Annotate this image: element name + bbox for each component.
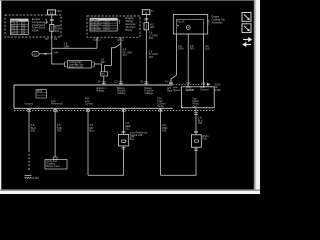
svg-text:Rqst: Rqst: [167, 89, 172, 92]
svg-text:Cooling: Cooling: [186, 88, 195, 91]
wire: BCM pin drop to H1: [96, 37, 98, 48]
pressure switch box 1: [119, 135, 129, 146]
svg-text:Relay: Relay: [158, 105, 165, 108]
wire: L1 down through fuse: [51, 15, 53, 49]
connector tick pair under L2: [144, 19, 148, 20]
svg-text:Control: Control: [85, 102, 94, 105]
svg-text:Voltage: Voltage: [145, 92, 154, 95]
svg-text:X50A: X50A: [56, 10, 62, 13]
svg-text:15 A: 15 A: [105, 28, 110, 31]
drop wire x29 from box D: [27, 108, 36, 171]
svg-text:G305: G305: [215, 89, 222, 92]
wire label on vertical drop: [54, 52, 59, 55]
svg-text:Fan Hi: Fan Hi: [177, 20, 185, 23]
svg-text:Voltage: Voltage: [117, 92, 126, 95]
ground G103: [25, 175, 32, 178]
svg-text:10A: 10A: [150, 26, 155, 29]
mid text block (low reference): [130, 130, 148, 137]
svg-text:Before Conn: Before Conn: [46, 165, 60, 168]
page margin: top hairline: [0, 0, 260, 2]
svg-text:459: 459: [149, 37, 154, 40]
fuse F1 label: [55, 25, 61, 33]
svg-text:473: 473: [123, 54, 128, 57]
junction at dashed line x88: [86, 109, 90, 111]
connector tick above bus x171: [169, 82, 173, 83]
svg-text:Ground: Ground: [25, 102, 34, 105]
svg-text:Reference: Reference: [51, 102, 63, 105]
svg-text:640: 640: [54, 52, 59, 55]
svg-text:30A: 30A: [55, 30, 60, 33]
svg-text:Speed: Speed: [173, 89, 181, 92]
svg-text:BLK: BLK: [205, 48, 210, 51]
motor symbol in box C: [186, 26, 190, 30]
fuse table in box A: [10, 19, 28, 35]
svg-text:Relay Control: Relay Control: [69, 66, 83, 69]
relay module box E: [182, 87, 215, 109]
svg-text:ORN: ORN: [178, 48, 184, 51]
connector tick at bus x147: [144, 82, 148, 83]
body control module (dashed box B): [87, 16, 140, 37]
drop wire x160 from box D: [158, 108, 167, 175]
BCM pin function labels (inside bottom): [25, 97, 167, 108]
wire label on branch: [101, 58, 107, 64]
svg-text:Block: Block: [125, 28, 132, 32]
BCM internal label box: [36, 90, 47, 99]
box B name text: [125, 16, 136, 32]
svg-text:Voltage: Voltage: [96, 89, 105, 92]
callout bracket from box B table: [118, 20, 120, 24]
small connector box under relay: [101, 72, 108, 76]
svg-text:Fan: Fan: [130, 137, 135, 141]
wires from box C down: [171, 34, 204, 87]
svg-text:FUSES: FUSES: [91, 20, 99, 22]
svg-text:X50A: X50A: [32, 29, 39, 33]
cooling fan assembly box C: [173, 15, 207, 35]
page margin: left white strip: [0, 0, 1, 194]
svg-text:763: 763: [57, 129, 62, 133]
cooling fan relay box: [65, 61, 95, 70]
svg-text:11: 11: [50, 11, 54, 15]
labels below dashed line: [173, 86, 205, 92]
connector labels under box A: [46, 38, 58, 41]
callout bracket from box A text: [45, 20, 47, 24]
wire labels on L2 drop: [149, 32, 158, 59]
svg-text:G103: G103: [32, 176, 39, 180]
body control module box D (open right side): [14, 85, 173, 108]
svg-text:459: 459: [149, 56, 154, 59]
icon: swap arrows: [242, 37, 252, 47]
switch 2 return wire: [160, 147, 198, 175]
fuse F2 on wire: [144, 23, 149, 30]
dashed connector line over fan wires: [173, 83, 211, 86]
text right of arrow: [215, 84, 222, 92]
connector labels under box B: [94, 38, 125, 41]
svg-text:17: 17: [33, 52, 37, 56]
icon: zoom box 1 (top right margin): [242, 13, 251, 22]
svg-text:Ground: Ground: [200, 88, 209, 91]
svg-text:Assembly: Assembly: [212, 21, 224, 24]
drop wire x88 from box D: [88, 108, 95, 175]
switch 2 label: [202, 134, 208, 141]
fuse F2 label: [150, 23, 155, 29]
lower dashed connector line: [14, 110, 214, 112]
wire label above H1: [64, 43, 70, 49]
fuse table in box B: [90, 18, 117, 31]
svg-text:150: 150: [198, 121, 203, 125]
svg-text:GRY: GRY: [101, 61, 107, 64]
svg-text:Fan: Fan: [202, 136, 207, 140]
svg-text:PPL: PPL: [190, 48, 195, 51]
wire: down from H1 junction to fan relay box: [52, 48, 65, 64]
wire: connector box down to bus: [103, 76, 105, 85]
box C name text: [212, 16, 226, 25]
wire: horizontal link H1 to BCM pin: [52, 47, 97, 49]
page margin: right white strip: [255, 0, 260, 194]
svg-text:550: 550: [31, 129, 36, 133]
connector tick pair under L1: [50, 19, 54, 20]
connector label box L2: [142, 10, 154, 15]
bottom connector box: [45, 157, 67, 169]
svg-text:F3A: F3A: [207, 20, 210, 25]
icon: zoom box 2: [242, 24, 251, 33]
drop wire x123 to component box 1: [122, 108, 131, 134]
wire: L2 through fuse down to bus: [145, 15, 147, 85]
fuse block module (dashed box A): [5, 15, 61, 37]
junction tick at bus x121: [119, 82, 123, 83]
wire label on second drop: [123, 49, 133, 57]
svg-text:532: 532: [125, 127, 130, 131]
drop wire x196 from box E to component box 2: [194, 108, 203, 135]
wire: BCM second drop to bus: [120, 37, 122, 85]
switch 1 return wire: [88, 146, 126, 175]
drop wire x55 from box D to connector box: [53, 108, 62, 157]
svg-text:ORN: ORN: [64, 45, 70, 48]
wire labels under box C: [178, 45, 210, 51]
svg-text:BCM: BCM: [37, 91, 42, 93]
fuse F1 on wire: [50, 25, 54, 32]
wire: diagonal branch to relay connector: [105, 43, 121, 71]
svg-text:635: 635: [162, 129, 167, 133]
switch 1 label: [130, 134, 135, 141]
wire: relay box right to connector box: [94, 64, 101, 72]
page margin: bottom white strip: [0, 191, 260, 194]
junction ticks on dashed line: [186, 82, 205, 84]
BCM pin function labels (inside top): [96, 87, 172, 95]
box A name text: [32, 17, 49, 33]
svg-text:4: 4: [145, 11, 147, 15]
connector label box L1: [48, 10, 63, 15]
pressure switch box 2: [191, 135, 201, 147]
svg-text:Signal C/B: Signal C/B: [130, 133, 143, 137]
svg-text:BLU: BLU: [90, 129, 95, 133]
in-line connector symbol with arrow: [32, 52, 52, 57]
svg-text:PCM: PCM: [95, 29, 100, 31]
junction tick at bus x104: [102, 82, 106, 83]
svg-text:FUSES: FUSES: [11, 20, 19, 22]
